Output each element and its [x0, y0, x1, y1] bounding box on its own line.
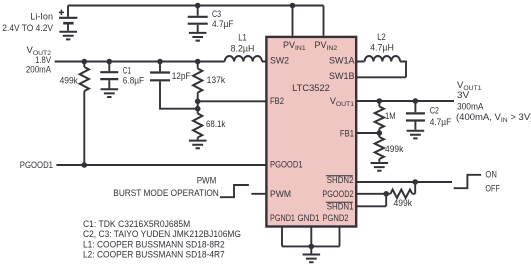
svg-text:4.7µF: 4.7µF: [430, 117, 452, 128]
svg-text:L2: COOPER BUSSMANN SD18-4R7: L2: COOPER BUSSMANN SD18-4R7: [83, 249, 225, 259]
svg-text:C1: TDK C3216X5R0J685M: C1: TDK C3216X5R0J685M: [83, 219, 190, 229]
svg-text:Li-Ion: Li-Ion: [30, 12, 53, 23]
svg-text:8.2µH: 8.2µH: [231, 43, 255, 54]
svg-text:499k: 499k: [385, 144, 404, 155]
svg-text:OFF: OFF: [485, 184, 500, 195]
svg-text:L2: L2: [377, 32, 386, 43]
svg-text:6.8µF: 6.8µF: [123, 76, 144, 87]
svg-text:ON: ON: [485, 170, 497, 181]
svg-text:4.7µF: 4.7µF: [212, 19, 234, 30]
svg-text:137k: 137k: [207, 75, 226, 86]
svg-text:PGOOD2: PGOOD2: [322, 189, 353, 199]
svg-text:SW1A: SW1A: [329, 55, 355, 65]
svg-text:PWM: PWM: [197, 176, 217, 187]
svg-text:LTC3522: LTC3522: [292, 83, 330, 93]
svg-text:SW1B: SW1B: [329, 71, 355, 81]
svg-text:68.1k: 68.1k: [206, 119, 226, 130]
svg-text:12pF: 12pF: [172, 71, 191, 82]
svg-text:L1: COOPER BUSSMANN SD18-8R2: L1: COOPER BUSSMANN SD18-8R2: [83, 239, 225, 249]
svg-text:C3: C3: [212, 9, 221, 20]
svg-text:200mA: 200mA: [26, 65, 52, 76]
svg-text:PGND2: PGND2: [323, 213, 349, 223]
svg-text:PGOOD1: PGOOD1: [270, 160, 303, 170]
svg-text:FB1: FB1: [340, 129, 354, 139]
svg-text:FB2: FB2: [270, 96, 284, 106]
svg-text:PGND1: PGND1: [270, 213, 295, 223]
svg-text:C2, C3: TAIYO YUDEN JMK212BJ10: C2, C3: TAIYO YUDEN JMK212BJ106MG: [83, 229, 241, 239]
svg-text:L1: L1: [238, 33, 247, 44]
svg-text:GND1: GND1: [298, 213, 320, 223]
svg-text:4.7µH: 4.7µH: [370, 43, 394, 54]
svg-text:SW2: SW2: [270, 56, 289, 66]
svg-text:499k: 499k: [60, 76, 79, 87]
svg-text:2.4V TO 4.2V: 2.4V TO 4.2V: [2, 23, 53, 34]
svg-text:SHDN1: SHDN1: [327, 202, 354, 212]
svg-text:PGOOD1: PGOOD1: [20, 160, 53, 171]
svg-text:BURST MODE OPERATION: BURST MODE OPERATION: [113, 188, 219, 199]
svg-text:SHDN2: SHDN2: [327, 175, 354, 185]
svg-text:1M: 1M: [385, 111, 396, 122]
svg-text:PWM: PWM: [270, 189, 291, 199]
svg-text:(400mA, VIN > 3V): (400mA, VIN > 3V): [456, 112, 531, 124]
svg-text:499k: 499k: [394, 198, 413, 209]
svg-text:3V: 3V: [457, 90, 470, 101]
svg-text:C2: C2: [430, 106, 439, 117]
svg-text:300mA: 300mA: [457, 101, 484, 112]
